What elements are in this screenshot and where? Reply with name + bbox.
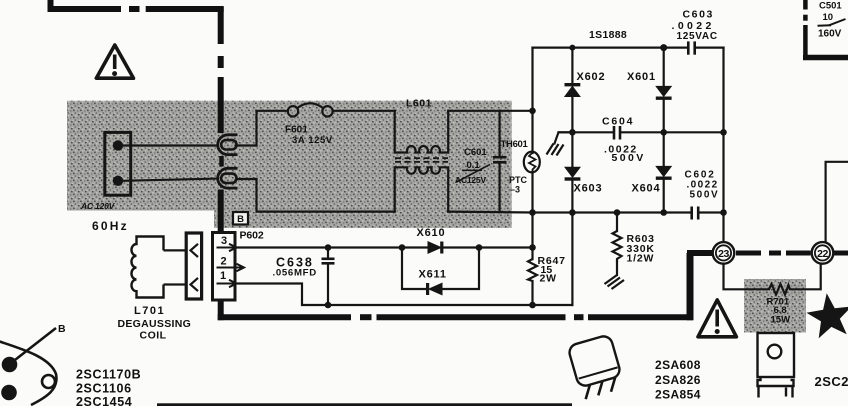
svg-text:15W: 15W (771, 315, 791, 326)
svg-text:2: 2 (220, 256, 226, 268)
svg-text:2SC1454: 2SC1454 (76, 395, 132, 406)
svg-text:2SA608: 2SA608 (655, 358, 701, 372)
svg-text:AC 120V: AC 120V (80, 201, 116, 211)
svg-text:2W: 2W (540, 273, 557, 285)
svg-text:PTC: PTC (509, 175, 528, 185)
svg-text:L601: L601 (406, 98, 432, 110)
svg-text:X604: X604 (632, 183, 661, 195)
svg-text:2SA826: 2SA826 (655, 373, 701, 387)
svg-text:1: 1 (220, 270, 226, 282)
svg-text:2SC1170B: 2SC1170B (76, 368, 141, 382)
svg-text:B: B (58, 323, 66, 335)
svg-text:F601: F601 (285, 125, 308, 136)
svg-text:125VAC: 125VAC (677, 31, 718, 42)
svg-text:.056MFD: .056MFD (273, 268, 317, 279)
svg-text:23: 23 (718, 248, 729, 260)
svg-text:2SA854: 2SA854 (655, 388, 701, 402)
svg-text:3: 3 (221, 235, 227, 247)
svg-text:.0022: .0022 (672, 20, 715, 32)
svg-text:P602: P602 (240, 230, 264, 242)
svg-text:DEGAUSSING: DEGAUSSING (118, 318, 192, 330)
svg-text:TH601: TH601 (501, 139, 529, 150)
svg-text:C601: C601 (464, 147, 487, 158)
svg-text:B: B (237, 214, 244, 225)
svg-text:160V: 160V (818, 29, 842, 40)
svg-text:L701: L701 (134, 305, 165, 317)
svg-text:C603: C603 (683, 9, 715, 21)
svg-text:1S1888: 1S1888 (589, 29, 627, 41)
svg-text:60Hz: 60Hz (92, 219, 129, 233)
svg-text:C604: C604 (602, 116, 634, 128)
svg-text:10: 10 (823, 12, 834, 23)
svg-text:22: 22 (817, 248, 828, 260)
svg-text:X610: X610 (417, 227, 446, 239)
svg-text:X603: X603 (574, 183, 603, 195)
svg-text:COIL: COIL (140, 330, 167, 342)
svg-text:2SC2: 2SC2 (815, 374, 848, 389)
svg-text:1/2W: 1/2W (627, 253, 655, 265)
svg-text:C501: C501 (819, 1, 842, 12)
svg-text:500V: 500V (690, 190, 720, 201)
svg-text:3A 125V: 3A 125V (292, 135, 333, 146)
svg-text:X611: X611 (419, 269, 447, 281)
svg-text:X602: X602 (577, 71, 606, 83)
svg-text:0.1: 0.1 (467, 160, 481, 171)
svg-text:X601: X601 (627, 71, 656, 83)
svg-text:2SC1106: 2SC1106 (76, 382, 132, 396)
svg-text:AC125V: AC125V (455, 175, 486, 185)
svg-text:500V: 500V (612, 152, 646, 164)
svg-text:–3: –3 (510, 185, 520, 195)
